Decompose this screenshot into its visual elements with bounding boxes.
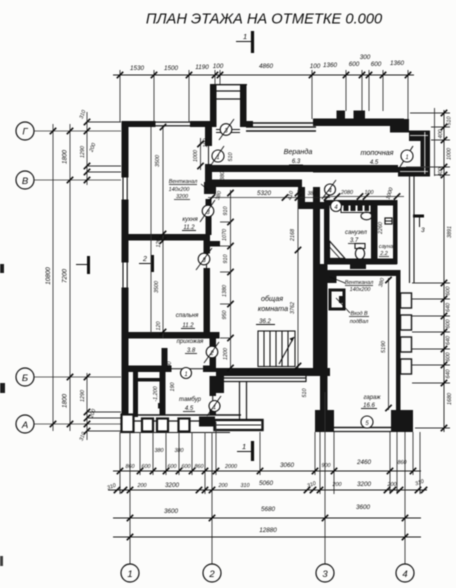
porch wall left — [210, 84, 217, 127]
wall: outer left — [122, 121, 129, 431]
veranda east band inner white lines — [400, 132, 428, 174]
garage east pilaster 3 — [401, 337, 412, 352]
garage door double line — [334, 427, 391, 429]
sanuzel west wall — [324, 200, 330, 259]
axis line Б — [34, 376, 121, 378]
svg-text:860: 860 — [398, 460, 407, 466]
svg-text:600: 600 — [349, 61, 360, 68]
wall: top segment 2 — [190, 121, 216, 127]
svg-text:Г: Г — [22, 127, 28, 138]
svg-text:3600: 3600 — [356, 504, 371, 511]
svg-text:3200: 3200 — [165, 482, 180, 489]
svg-text:200: 200 — [137, 483, 147, 489]
svg-text:3891: 3891 — [447, 226, 453, 238]
svg-text:120: 120 — [156, 239, 162, 248]
living room south wall — [216, 368, 330, 376]
garage north wall — [328, 270, 399, 276]
svg-text:600: 600 — [142, 464, 151, 470]
svg-text:5060: 5060 — [259, 480, 274, 487]
svg-text:Б: Б — [22, 373, 28, 384]
svg-text:1: 1 — [405, 155, 408, 161]
dim chain x298 (2168/3762) — [297, 190, 299, 368]
top dimension line — [113, 74, 414, 76]
svg-text:910: 910 — [223, 207, 229, 216]
svg-text:топочная: топочная — [360, 148, 393, 157]
wall: top (kitchen north) segment 1 — [122, 121, 156, 127]
porch door opening line — [216, 129, 240, 131]
dim line below B wall: 380/5320/410/380 — [208, 197, 330, 199]
svg-text:1: 1 — [242, 442, 246, 451]
sanuzel south protrusion — [350, 265, 366, 270]
svg-text:600: 600 — [446, 320, 452, 329]
svg-text:950: 950 — [222, 311, 228, 320]
svg-text:2.2: 2.2 — [379, 251, 388, 257]
right extension lines — [406, 113, 450, 428]
svg-text:1800: 1800 — [62, 394, 69, 409]
svg-text:3762: 3762 — [290, 302, 296, 314]
svg-text:подВал: подВал — [350, 319, 369, 325]
section mark 3 (right side) — [413, 216, 424, 227]
door mark 1 topochnaya — [401, 150, 413, 162]
left dim chain 310/1290/200 top — [86, 112, 88, 185]
kitchen east wall lower — [205, 164, 212, 180]
dim 5190 garage — [388, 278, 390, 410]
door mark 1 hallway-tambour — [181, 368, 192, 379]
right dim line — [443, 110, 445, 432]
door mark 4 corridor — [325, 184, 336, 195]
svg-text:410: 410 — [287, 191, 295, 201]
svg-text:1000: 1000 — [447, 148, 453, 160]
wall: top segment 3 (right of porch) — [246, 121, 253, 127]
svg-text:310: 310 — [79, 109, 88, 120]
svg-text:640: 640 — [446, 336, 452, 345]
wall step to sanuzel corner — [298, 202, 326, 209]
svg-text:5680: 5680 — [261, 506, 276, 513]
sanuzel south wall — [324, 259, 397, 265]
axis circle 1 — [121, 564, 139, 582]
svg-text:1200: 1200 — [223, 348, 229, 360]
svg-text:310: 310 — [241, 483, 250, 489]
dim row D y537 — [113, 536, 421, 538]
hallway east wall — [210, 339, 217, 366]
section mark 2 (inside plan) — [139, 255, 153, 272]
garage bottom pier right — [391, 410, 413, 432]
axis circle 3 — [316, 564, 334, 582]
kitchen east door opening line — [208, 146, 210, 164]
svg-text:190: 190 — [167, 362, 173, 371]
svg-text:2: 2 — [208, 569, 215, 580]
svg-text:2: 2 — [142, 256, 147, 263]
svg-text:3600: 3600 — [164, 508, 179, 515]
svg-text:3500: 3500 — [155, 155, 161, 167]
axis circle А — [16, 415, 34, 433]
hallway-tambour door line — [172, 368, 204, 370]
svg-text:2000: 2000 — [224, 464, 237, 470]
axis line А — [34, 423, 121, 425]
veranda glazing lines — [246, 123, 316, 131]
svg-text:510: 510 — [302, 389, 308, 398]
svg-text:5190: 5190 — [381, 341, 387, 353]
bedroom south wall — [122, 332, 220, 339]
svg-text:400: 400 — [438, 130, 444, 139]
svg-text:ПЛАН ЭТАЖА НА ОТМЕТКЕ 0.000: ПЛАН ЭТАЖА НА ОТМЕТКЕ 0.000 — [146, 12, 383, 28]
tambour west wall — [160, 372, 166, 415]
svg-text:3200: 3200 — [357, 481, 372, 488]
door mark 1 kitchen-veranda — [212, 150, 224, 162]
svg-text:прихожая: прихожая — [177, 339, 205, 345]
veranda east band bottom — [398, 167, 430, 177]
svg-text:640: 640 — [446, 303, 452, 312]
svg-text:380: 380 — [155, 448, 164, 454]
sanuzel/sauna divider — [371, 205, 378, 259]
svg-text:3: 3 — [421, 227, 425, 234]
svg-text:2080: 2080 — [340, 190, 353, 196]
garage bottom pier left — [315, 410, 334, 432]
svg-text:860: 860 — [195, 464, 204, 470]
svg-text:640: 640 — [446, 370, 452, 379]
kitchen vent block — [204, 182, 216, 194]
window kitchen north — [155, 122, 190, 123]
svg-text:санузел: санузел — [345, 230, 367, 236]
svg-text:380: 380 — [308, 191, 317, 197]
corner block top-right — [390, 119, 409, 133]
svg-text:сауна: сауна — [379, 244, 393, 250]
svg-text:3: 3 — [322, 569, 328, 580]
dim row C y518 — [113, 517, 421, 519]
stoop side steps — [239, 382, 241, 419]
porch wall right — [240, 84, 247, 127]
svg-text:4: 4 — [402, 569, 407, 580]
porch top line — [210, 84, 247, 86]
svg-text:1530: 1530 — [130, 65, 145, 72]
porch post 1 — [142, 419, 153, 432]
veranda east band top — [409, 131, 430, 142]
svg-text:2460: 2460 — [356, 459, 372, 466]
svg-text:1360: 1360 — [390, 60, 405, 67]
svg-text:140х200: 140х200 — [169, 187, 190, 193]
porch step lines — [217, 90, 241, 92]
svg-text:860: 860 — [126, 464, 135, 470]
svg-text:600: 600 — [182, 464, 191, 470]
kitchen east wall below vent — [206, 199, 212, 235]
dim row A y471 — [113, 470, 421, 472]
svg-text:общая: общая — [261, 294, 283, 303]
svg-text:900: 900 — [322, 463, 331, 469]
sanuzel north wall — [324, 200, 397, 206]
svg-text:200: 200 — [387, 482, 397, 488]
svg-text:12880: 12880 — [259, 527, 277, 534]
svg-text:310: 310 — [79, 431, 88, 442]
scan artifact left edge — [0, 264, 4, 273]
svg-text:1000: 1000 — [193, 150, 199, 162]
svg-text:6.3: 6.3 — [292, 159, 301, 165]
svg-text:1500: 1500 — [164, 65, 179, 72]
B-axis wall (living room north) — [205, 180, 302, 188]
svg-text:Вентканал: Вентканал — [169, 179, 198, 185]
top dimension extension lines — [120, 70, 408, 127]
svg-text:7200: 7200 — [62, 269, 69, 284]
svg-text:600: 600 — [446, 287, 452, 296]
svg-text:200: 200 — [332, 482, 342, 488]
closet west wall — [133, 370, 138, 417]
porch post 2 — [157, 419, 168, 432]
garage east pilaster 2 — [401, 315, 412, 330]
svg-text:А: А — [21, 420, 28, 431]
svg-text:1000: 1000 — [385, 187, 394, 200]
svg-text:1190: 1190 — [195, 64, 209, 71]
svg-text:1: 1 — [127, 569, 132, 580]
door mark 3 bedroom — [198, 253, 210, 265]
svg-text:3060: 3060 — [280, 462, 295, 469]
svg-text:Вентканал: Вентканал — [345, 280, 374, 286]
svg-text:-1,200: -1,200 — [153, 386, 159, 401]
sanuzel vent squares — [344, 206, 349, 212]
terrace edge double line right — [409, 176, 411, 283]
kitchen/bedroom divider wall — [126, 234, 210, 241]
door mark 4 sanuzel — [331, 201, 342, 212]
garage west wall — [320, 264, 328, 430]
svg-text:3200: 3200 — [176, 194, 188, 200]
svg-text:190: 190 — [203, 139, 209, 148]
garage interior step top-left — [328, 276, 337, 283]
door mark 3 porch — [220, 124, 232, 136]
svg-text:5320: 5320 — [257, 190, 272, 197]
svg-text:2168: 2168 — [290, 229, 296, 242]
svg-text:3500: 3500 — [154, 281, 160, 293]
porch post 3 — [179, 419, 190, 432]
garage east wall — [396, 270, 401, 415]
topochnaya north wall — [313, 119, 404, 127]
svg-text:4860: 4860 — [259, 63, 274, 70]
svg-text:400: 400 — [438, 168, 444, 177]
toilet — [355, 244, 365, 249]
svg-text:тамбур: тамбур — [179, 397, 202, 403]
svg-text:1290: 1290 — [80, 146, 86, 158]
svg-text:510: 510 — [228, 153, 234, 162]
bottom extension lines — [120, 392, 420, 564]
closet north wall — [138, 378, 160, 382]
topochnaya south wall — [313, 165, 398, 173]
svg-text:120: 120 — [156, 322, 162, 331]
svg-text:190: 190 — [170, 383, 176, 392]
living room east wall — [313, 187, 320, 368]
axis line В — [34, 179, 121, 181]
sauna heater — [385, 218, 392, 224]
wall corner step left — [122, 415, 134, 433]
sauna east wall — [393, 200, 398, 264]
svg-text:1800: 1800 — [62, 150, 69, 165]
axis circle 2 — [203, 564, 221, 582]
bedroom door opening line — [206, 253, 208, 268]
svg-text:200: 200 — [218, 483, 228, 489]
svg-text:1680: 1680 — [447, 393, 453, 405]
svg-text:310: 310 — [414, 479, 425, 488]
tambour east wall — [210, 376, 217, 396]
shower corner triangle — [330, 241, 346, 259]
veranda south wall — [212, 165, 316, 172]
svg-text:спальня: спальня — [176, 313, 199, 319]
svg-text:600: 600 — [446, 353, 452, 362]
door mark 3 kitchen — [202, 205, 214, 217]
svg-text:600: 600 — [371, 61, 382, 68]
section mark 2 (outside left) — [76, 256, 89, 274]
entry step block — [215, 420, 263, 430]
axis circle В — [16, 171, 34, 189]
svg-text:140х200: 140х200 — [350, 287, 371, 293]
svg-text:380: 380 — [175, 448, 184, 454]
garage east pilaster 4 — [401, 359, 412, 374]
garage east pilaster 1 — [401, 293, 412, 308]
svg-text:1070: 1070 — [222, 229, 228, 241]
svg-text:1290: 1290 — [80, 390, 86, 402]
vent stack 2 above wall — [354, 111, 366, 119]
hallway west wall — [162, 348, 168, 369]
door mark 1 tambour — [209, 401, 220, 412]
svg-text:910: 910 — [223, 255, 229, 264]
svg-text:2260: 2260 — [378, 222, 384, 235]
svg-text:380: 380 — [220, 172, 226, 181]
svg-text:комната: комната — [258, 304, 288, 313]
sanuzel vent row outline — [341, 204, 371, 213]
B-axis wall left part — [122, 366, 172, 373]
svg-text:Веранда: Веранда — [284, 147, 313, 156]
veranda east band right — [421, 131, 431, 177]
dim line corridor: 2080/100/1000 — [324, 196, 404, 198]
section mark 1 (top) — [236, 31, 253, 53]
dim chain x230 (910/1070/910/1380/950/1200) — [230, 190, 232, 370]
svg-text:600: 600 — [168, 464, 177, 470]
axis line Г — [34, 130, 121, 132]
cellar closet block — [339, 296, 345, 303]
svg-text:Вход В: Вход В — [350, 311, 368, 317]
left dim chain 10800 — [52, 124, 54, 431]
kitchen east wall upper — [205, 121, 212, 146]
cellar entrance closet — [330, 290, 344, 309]
stairs — [258, 331, 295, 367]
section mark 1 (bottom) — [237, 441, 253, 461]
bedroom west window — [122, 262, 129, 288]
svg-text:1: 1 — [184, 372, 187, 378]
svg-text:510: 510 — [447, 117, 453, 126]
svg-text:4.5: 4.5 — [370, 160, 379, 166]
topochnaya door slash — [398, 146, 413, 170]
dim 1000 kitchen door — [200, 138, 202, 170]
svg-text:100: 100 — [213, 63, 224, 70]
dim row B y490 — [108, 489, 427, 491]
svg-text:200: 200 — [88, 142, 97, 153]
svg-text:В: В — [22, 176, 29, 187]
svg-text:гараж: гараж — [363, 395, 381, 401]
vent stack 1 above wall — [337, 111, 346, 119]
left dim chain 1800/7200/1800 — [69, 124, 71, 431]
stoop lines below living room — [218, 376, 306, 382]
svg-text:кухня: кухня — [182, 217, 198, 223]
svg-text:380: 380 — [215, 191, 223, 201]
tambour east door line — [212, 396, 214, 409]
svg-text:300: 300 — [360, 54, 371, 61]
entry bottom wall double lines — [122, 414, 242, 416]
svg-text:1: 1 — [243, 32, 247, 41]
axis circle 4 — [396, 564, 414, 582]
svg-text:100: 100 — [365, 190, 374, 196]
closet vent block — [158, 403, 165, 409]
washbasin — [361, 212, 372, 220]
dim 3500 kitchen — [150, 127, 152, 333]
left dim chain 1290/200/310 bottom — [86, 373, 88, 440]
bedroom east wall — [204, 241, 211, 254]
wall corner block right — [199, 417, 215, 427]
door mark 2 hallway — [206, 346, 218, 358]
gate mark 5 garage — [361, 416, 373, 428]
axis circle Б — [16, 368, 34, 386]
kitchen west window — [122, 177, 129, 200]
axis circle Г — [16, 122, 34, 140]
svg-text:1360: 1360 — [323, 62, 338, 69]
svg-text:10800: 10800 — [45, 267, 52, 285]
svg-text:100: 100 — [310, 63, 321, 70]
svg-text:1380: 1380 — [222, 285, 228, 297]
